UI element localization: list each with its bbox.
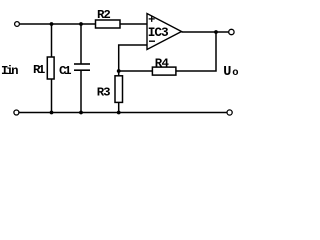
svg-text:IC3: IC3: [148, 25, 169, 40]
svg-text:R1: R1: [33, 63, 45, 77]
svg-text:C1: C1: [59, 64, 72, 78]
svg-text:Iin: Iin: [1, 64, 19, 78]
svg-text:R4: R4: [155, 57, 170, 71]
svg-text:R3: R3: [97, 85, 111, 99]
svg-text:U: U: [223, 65, 231, 80]
svg-text:o: o: [232, 67, 238, 79]
svg-text:R2: R2: [97, 8, 111, 22]
